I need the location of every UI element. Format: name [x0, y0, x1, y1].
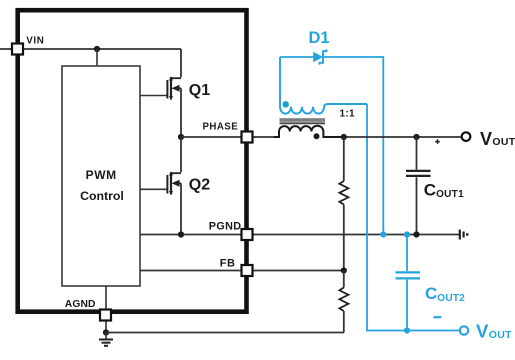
- svg-text:FB: FB: [220, 258, 236, 270]
- wire D1 cathode to PGND: [323, 57, 384, 235]
- wire VIN to PWM block: [96, 49, 98, 66]
- resistor R2: [339, 288, 348, 312]
- label minus: [434, 316, 442, 318]
- wire Q2 drain: [180, 137, 182, 172]
- pin FB: [242, 265, 253, 276]
- node COUT1 top junction: [413, 134, 419, 140]
- ground symbol AGND: [99, 333, 113, 346]
- node COUT2 top junction: [404, 231, 410, 237]
- wire Q2 source to PGND: [180, 194, 182, 235]
- transformer core: [280, 118, 326, 123]
- pin PGND: [242, 229, 253, 240]
- wire FB to R2: [343, 271, 345, 288]
- wire COUT1 branch: [416, 137, 418, 235]
- wire VIN rail: [0, 48, 181, 50]
- node COUT1 bottom junction: [413, 231, 419, 237]
- svg-text:AGND: AGND: [65, 299, 96, 310]
- label plus: [435, 139, 440, 144]
- transistor Q1: [167, 77, 210, 101]
- svg-text:Control: Control: [80, 189, 124, 203]
- diode D1 (schottky): [309, 29, 330, 65]
- svg-text:1:1: 1:1: [340, 109, 355, 120]
- wire AGND rail: [106, 332, 344, 334]
- wire divider top: [343, 137, 345, 181]
- node divider junction: [341, 134, 347, 140]
- wire Q1 gate: [140, 95, 167, 97]
- wire PHASE line: [181, 136, 274, 138]
- svg-text:PHASE: PHASE: [203, 122, 239, 133]
- svg-text:Q1: Q1: [189, 82, 210, 99]
- resistor R1: [339, 181, 348, 205]
- node AGND junction: [103, 329, 109, 335]
- wire COUT2 branch: [406, 235, 408, 331]
- node secondary polarity dot: [283, 101, 289, 107]
- node D1/PGND junction: [380, 231, 386, 237]
- wire FB line: [140, 270, 344, 272]
- transistor Q2: [167, 172, 210, 196]
- chip outline U1: [18, 10, 247, 312]
- node primary polarity dot: [314, 133, 320, 139]
- node FB junction: [341, 267, 347, 273]
- capacitor COUT1: [406, 171, 464, 200]
- transformer T1 secondary winding: [280, 57, 367, 114]
- svg-text:VIN: VIN: [26, 36, 44, 47]
- node phase junction: [178, 134, 184, 140]
- wire AGND from PWM block: [105, 286, 107, 333]
- terminal VOUT+: [462, 132, 471, 141]
- wire Q1 source to phase node: [180, 99, 182, 137]
- wire secondary to Vout- rail: [367, 104, 460, 331]
- node VIN junction: [94, 46, 100, 52]
- node Q2 source / PGND junction: [178, 231, 184, 237]
- wire PGND line: [140, 234, 459, 236]
- terminal VOUT-: [460, 326, 468, 334]
- pin AGND: [100, 310, 111, 321]
- transformer T1 primary winding: [274, 126, 343, 140]
- node COUT2 bottom junction: [404, 327, 410, 333]
- wire Q1 drain from VIN rail: [180, 49, 182, 77]
- wire Q2 gate: [140, 188, 167, 190]
- wire D1 anode loop: [280, 56, 314, 58]
- svg-text:D1: D1: [309, 29, 330, 47]
- capacitor COUT2: [396, 272, 466, 303]
- ground chassis right: [460, 230, 467, 240]
- wire R1 to FB: [343, 205, 345, 271]
- svg-text:PGND: PGND: [209, 220, 242, 232]
- svg-text:Q2: Q2: [189, 176, 210, 193]
- wire R2 to AGND rail: [343, 311, 345, 333]
- svg-text:PWM: PWM: [86, 168, 117, 182]
- pin PHASE: [242, 132, 253, 143]
- pin VIN: [12, 44, 23, 55]
- wire VOUT+ rail: [343, 136, 461, 138]
- PWM controller block: [62, 66, 140, 286]
